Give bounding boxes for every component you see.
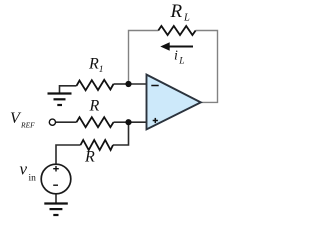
svg-text:R: R	[88, 56, 99, 73]
svg-text:R: R	[89, 98, 100, 115]
svg-text:i: i	[174, 49, 178, 64]
svg-text:R: R	[84, 149, 95, 166]
svg-text:L: L	[178, 57, 184, 67]
svg-text:v: v	[20, 160, 28, 179]
svg-text:in: in	[29, 173, 37, 183]
svg-text:L: L	[183, 12, 190, 23]
svg-text:REF: REF	[20, 121, 35, 130]
svg-text:1: 1	[99, 65, 104, 75]
svg-text:R: R	[170, 1, 183, 22]
